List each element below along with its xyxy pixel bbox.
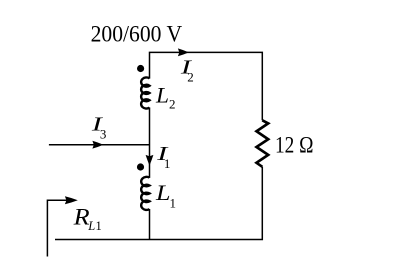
- svg-text:L: L: [155, 82, 169, 107]
- svg-text:3: 3: [100, 126, 107, 141]
- svg-text:12 Ω: 12 Ω: [275, 133, 314, 159]
- svg-text:200/600 V: 200/600 V: [91, 22, 183, 48]
- svg-text:L: L: [155, 180, 171, 205]
- svg-text:R: R: [72, 205, 89, 230]
- svg-text:1: 1: [170, 196, 177, 211]
- svg-text:2: 2: [169, 96, 176, 111]
- svg-text:1: 1: [96, 219, 102, 233]
- svg-text:1: 1: [164, 156, 171, 171]
- svg-text:2: 2: [187, 70, 194, 85]
- svg-text:L: L: [87, 219, 95, 233]
